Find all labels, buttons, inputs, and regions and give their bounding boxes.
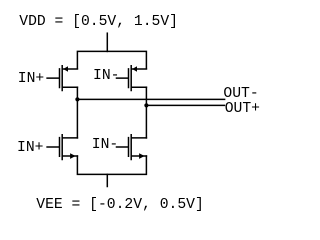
wire VDD rail [77, 51, 146, 68]
wire VEE stub [106, 174, 108, 186]
wire VEE rail [77, 156, 146, 174]
junction dot left node [75, 97, 79, 101]
svg-text:OUT+: OUT+ [225, 101, 260, 117]
text IN- bottom [92, 137, 118, 153]
svg-text:IN+: IN+ [17, 140, 43, 156]
svg-text:VDD = [0.5V, 1.5V]: VDD = [0.5V, 1.5V] [19, 14, 178, 30]
transistor M2 top-right PMOS [117, 66, 147, 91]
text OUT- [223, 86, 258, 102]
text IN+ top [18, 71, 44, 87]
svg-text:OUT-: OUT- [223, 86, 258, 102]
transistor M4 bottom-right NMOS [117, 135, 147, 160]
wire OUT- [77, 98, 224, 100]
wire right drain column [145, 87, 147, 138]
net VDD label [19, 14, 178, 30]
net VEE label [36, 197, 203, 213]
svg-text:IN-: IN- [93, 68, 119, 84]
junction dot right node [144, 103, 148, 107]
transistor M3 bottom-left NMOS [47, 135, 77, 160]
text IN- top [93, 68, 119, 84]
svg-text:IN-: IN- [92, 137, 118, 153]
text OUT+ [225, 101, 260, 117]
wire VDD stub [106, 33, 108, 51]
transistor M1 top-left PMOS [47, 66, 77, 91]
text IN+ bottom [17, 140, 43, 156]
svg-text:VEE = [-0.2V, 0.5V]: VEE = [-0.2V, 0.5V] [36, 197, 203, 213]
wire OUT+ [146, 104, 224, 106]
svg-text:IN+: IN+ [18, 71, 44, 87]
wire left drain column [76, 87, 78, 138]
